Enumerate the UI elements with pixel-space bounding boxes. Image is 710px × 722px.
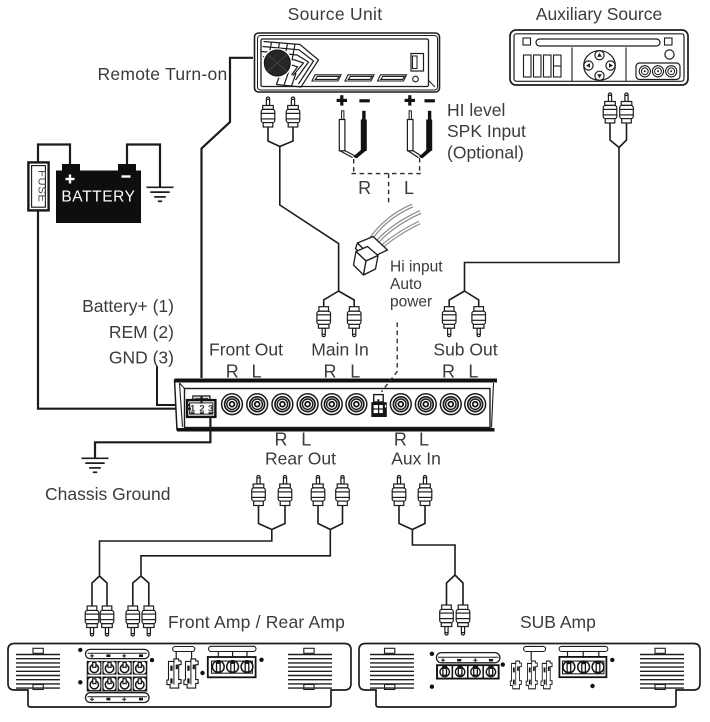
front amp power terminal block (208, 657, 256, 677)
speaker wire pair 2: negative (black) lead (419, 111, 432, 159)
speaker wire pair 1: positive (white) lead (339, 111, 355, 158)
SUB amp screws right (610, 658, 614, 662)
RCA plug: Main In L (pointing down) (347, 307, 361, 337)
SUB amp right grille (640, 655, 684, 689)
svg-text:3: 3 (208, 404, 213, 415)
svg-text:SUB Amp: SUB Amp (520, 612, 596, 632)
ground symbol (battery) (147, 187, 174, 201)
front amp mounting slots (33, 648, 314, 689)
svg-text:L: L (301, 430, 311, 450)
front amp fuse holder 2 (184, 659, 198, 688)
speaker wire pair 2: minus sign (425, 99, 435, 102)
wire: source unit RCA cable down to Main In plugs (268, 127, 354, 307)
dashed leader: hi input connector to EQ socket (382, 323, 398, 392)
svg-text:Chassis Ground: Chassis Ground (45, 484, 170, 504)
front amp chassis (8, 644, 351, 708)
svg-text:Battery+ (1): Battery+ (1) (82, 296, 174, 316)
svg-text:R: R (394, 430, 407, 450)
SUB amp left grille (370, 655, 414, 689)
SUB amp fuse holder bar (524, 646, 546, 651)
EQ RCA jacks: Aux In R, L / Sub Out R, L (390, 394, 411, 415)
RCA plug: Sub Out R (pointing down) (442, 307, 456, 337)
svg-text:HI level: HI level (447, 100, 505, 120)
front amp screws right (259, 658, 263, 662)
hi input connector body (354, 237, 388, 276)
SUB amp fuse holder 3 (541, 661, 552, 689)
wire: battery negative to ground (127, 145, 160, 187)
wire: fuse down to EQ power connector (Battery+) (38, 211, 191, 409)
svg-text:Aux In: Aux In (391, 449, 441, 469)
SUB amp fuse holder 2 (526, 661, 537, 689)
svg-text:Hi input: Hi input (390, 259, 443, 276)
SUB amp fuse holder 1 (510, 661, 521, 689)
svg-text:R: R (275, 430, 288, 450)
EQ power connector (3-pin) (193, 396, 210, 400)
front amp speaker terminal top bar (86, 649, 150, 658)
svg-text:Rear Out: Rear Out (265, 449, 336, 469)
equalizer chassis (174, 378, 497, 432)
RCA plug: Rear Out pair B R (up) (311, 476, 325, 506)
SUB amp speaker terminal block (4 terminals) (437, 665, 452, 678)
battery (62, 164, 80, 172)
wire: remote turn-on from source unit down to EQ power plug (202, 58, 254, 403)
RCA plug: front amp input 4 (down) (142, 606, 156, 636)
svg-text:Auto: Auto (390, 276, 422, 293)
EQ RCA jacks: Front Out R, L / Rear Out R, L / Main In R, L (222, 394, 243, 415)
svg-text:power: power (390, 294, 432, 311)
wire: rear out pair B to front amp plugs (133, 506, 343, 607)
auxiliary source left buttons (524, 55, 562, 77)
speaker wire pair 2: plus sign (405, 95, 415, 105)
source unit button slots (312, 75, 407, 81)
RCA plug: Rear Out pair A L (up) (278, 476, 292, 506)
wire: aux in cable to SUB amp plugs (399, 506, 463, 606)
SUB amp power terminal bar (559, 646, 608, 651)
source unit (head unit) body (255, 33, 440, 92)
SUB amp chassis (359, 644, 700, 708)
wire stubs entering power connector (187, 396, 202, 409)
RCA plug: auxiliary source output L (620, 93, 634, 123)
wire: rear out pair A to front amp plugs (92, 506, 285, 607)
front amp speaker terminal bottom bar (86, 693, 150, 703)
front amp fuse holder 1 (167, 659, 181, 688)
source unit chevron decoration (262, 42, 319, 88)
RCA plug: Sub Out L (pointing down) (472, 307, 486, 337)
wire: EQ GND pin to chassis ground (95, 416, 210, 458)
svg-text:Auxiliary Source: Auxiliary Source (536, 4, 662, 24)
RCA plug: Aux In L (up) (418, 476, 432, 506)
svg-text:(Optional): (Optional) (447, 143, 524, 163)
wire: fuse to battery positive (38, 145, 70, 165)
auxiliary source body (510, 30, 688, 85)
speaker wire pair 1: negative (black) lead (353, 111, 367, 159)
svg-text:L: L (404, 178, 414, 198)
RCA plug: auxiliary source output R (603, 93, 617, 123)
SUB amp speaker terminal top bar (436, 653, 500, 663)
SUB amp screws left (430, 652, 434, 656)
hi input connector wires (grey) (367, 206, 421, 254)
RCA plug: Aux In R (up) (392, 476, 406, 506)
speaker wire pair 2: positive (white) lead (407, 111, 421, 158)
auxiliary source control pad (584, 51, 616, 81)
front amp power terminal bar (209, 646, 257, 651)
front amp screws (78, 648, 82, 652)
front amp left grille (16, 655, 60, 689)
RCA plug: Rear Out pair B L (up) (336, 476, 350, 506)
EQ hi-input socket (square) (374, 395, 384, 402)
RCA plug: SUB amp input R (down) (440, 605, 454, 635)
svg-text:BATTERY: BATTERY (61, 189, 135, 206)
RCA plug: source unit output R (261, 97, 275, 127)
svg-text:Source Unit: Source Unit (288, 4, 383, 24)
auxiliary source power button (665, 50, 674, 59)
dashed net: speaker leads to hi-input (352, 158, 422, 203)
svg-text:Front Out: Front Out (209, 340, 283, 360)
labels: pin numbers 1 2 3 (190, 404, 213, 415)
source unit volume knob (263, 48, 293, 78)
RCA plug: source unit output L (286, 97, 300, 127)
front amp speaker terminal block (8 holes) (87, 661, 148, 692)
svg-text:Remote Turn-on: Remote Turn-on (98, 64, 228, 84)
fuse holder (28, 162, 48, 210)
svg-text:Front Amp / Rear Amp: Front Amp / Rear Amp (168, 612, 345, 632)
SUB amp mounting slots (385, 648, 666, 689)
RCA plug: front amp input 1 (down) (85, 606, 99, 636)
source unit display (411, 54, 424, 72)
RCA plug: front amp input 2 (down) (100, 606, 114, 636)
svg-text:FUSE: FUSE (35, 170, 47, 203)
source unit small button circle (413, 76, 419, 82)
speaker wire pair 1: plus sign (337, 95, 347, 105)
RCA plug: Main In R (pointing down) (317, 307, 331, 337)
wire: auxiliary source cable down and left to Sub Out plugs (449, 123, 626, 307)
svg-text:R: R (358, 178, 371, 198)
front amp fuse holder bar (173, 647, 195, 652)
ground symbol (chassis) (82, 458, 109, 472)
svg-text:SPK Input: SPK Input (447, 121, 526, 141)
svg-text:2: 2 (199, 404, 204, 415)
svg-text:Main In: Main In (311, 340, 368, 360)
svg-text:GND (3): GND (3) (109, 348, 174, 368)
svg-text:REM (2): REM (2) (109, 322, 174, 342)
speaker wire pair 1: minus sign (359, 99, 369, 102)
wire: GND label leader to EQ power connector (157, 367, 190, 406)
RCA plug: front amp input 3 (down) (126, 606, 140, 636)
SUB amp power terminal block (559, 657, 606, 677)
RCA plug: SUB amp input L (down) (456, 605, 470, 635)
svg-text:L: L (419, 430, 429, 450)
svg-text:Sub Out: Sub Out (433, 340, 497, 360)
auxiliary source rear RCA jack block (636, 63, 680, 80)
RCA plug: Rear Out pair A R (up) (252, 476, 266, 506)
front amp right grille (288, 655, 332, 689)
